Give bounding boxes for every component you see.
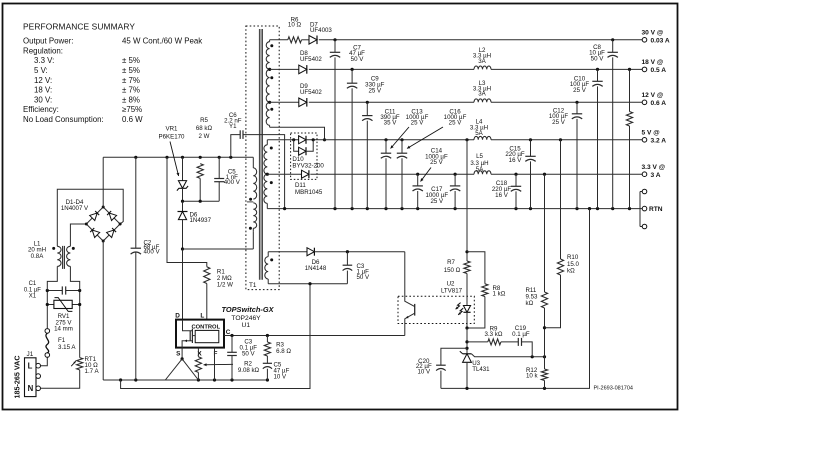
diode D11 MBR1045 [302, 170, 309, 178]
bridge rectifier D1-D4 [86, 207, 120, 241]
varistor RV1 [47, 304, 54, 306]
wire L1 right winding to bridge AC1 [70, 224, 86, 246]
inductor L5 [474, 171, 491, 174]
wire RTN rail [267, 208, 642, 210]
svg-text:5A: 5A [476, 166, 484, 173]
svg-text:10 Ω: 10 Ω [288, 22, 302, 29]
svg-text:U1: U1 [242, 322, 251, 329]
svg-text:45 W Cont./60 W Peak: 45 W Cont./60 W Peak [122, 37, 202, 46]
arrow C16 pointer [407, 127, 443, 149]
svg-text:T1: T1 [249, 282, 257, 289]
wire opto cathode to TL431 [466, 328, 468, 354]
capacitor C2 [135, 157, 137, 248]
svg-text:0.5 A: 0.5 A [651, 67, 667, 74]
svg-text:RTN: RTN [649, 206, 663, 213]
wire lower ground bus to bias return [121, 284, 310, 389]
output terminal 12 V [642, 100, 647, 105]
svg-text:N: N [28, 384, 34, 393]
capacitor C5 1nF [218, 157, 220, 178]
U2 light arrows [456, 303, 461, 310]
U2 phototransistor [414, 304, 416, 316]
wire bridge+ to B+ rail [102, 157, 104, 207]
capacitor C14 [417, 174, 419, 186]
secondary winding lower (5/3.3V) [266, 140, 268, 145]
wire TL431 ref line [471, 354, 544, 357]
capacitor C10 [597, 69, 599, 81]
svg-text:L5: L5 [476, 153, 483, 160]
svg-text:0.1 µF: 0.1 µF [24, 287, 41, 293]
TVS VR1 P6KE170 [182, 157, 184, 180]
resistor R6 [288, 37, 302, 43]
svg-text:1.7 A: 1.7 A [85, 368, 100, 375]
U2 LED [466, 296, 468, 305]
svg-text:± 5%: ± 5% [122, 66, 140, 75]
arrow C13 pointer [391, 127, 410, 149]
inductor L2 [474, 66, 491, 69]
wire fuse to C1 node [46, 291, 48, 329]
arrow R2 pointer [204, 363, 234, 366]
svg-text:68 kΩ: 68 kΩ [196, 125, 213, 132]
svg-text:Efficiency:: Efficiency: [23, 105, 59, 114]
diode D8 UF5402 [299, 65, 307, 74]
svg-text:UF5402: UF5402 [300, 56, 322, 63]
svg-text:50 V: 50 V [242, 351, 256, 358]
svg-text:16 V: 16 V [509, 157, 523, 164]
svg-text:25 V: 25 V [411, 120, 425, 127]
resistor R3 [266, 336, 268, 343]
capacitor C12 [576, 102, 578, 114]
wire 5V sense [560, 140, 562, 259]
capacitor C1 [47, 290, 62, 292]
resistor R7 [464, 261, 470, 274]
bias winding [267, 252, 269, 257]
capacitor C20 [441, 348, 467, 365]
svg-text:MBR1045: MBR1045 [295, 189, 323, 196]
output terminal RTN [639, 192, 641, 227]
svg-text:6.8 Ω: 6.8 Ω [276, 348, 291, 355]
capacitor C3 0.1uF [231, 336, 233, 353]
resistor 18V preload [629, 69, 631, 111]
svg-text:18 V:: 18 V: [34, 86, 52, 95]
resistor R1 line sense [167, 157, 207, 266]
svg-text:D: D [175, 313, 180, 320]
svg-text:3.3 V @: 3.3 V @ [642, 164, 666, 171]
svg-text:C1: C1 [29, 281, 37, 287]
svg-text:12 V:: 12 V: [34, 76, 52, 85]
wire L1 left winding to bridge AC2 [57, 189, 123, 246]
svg-text:400 V: 400 V [144, 249, 161, 256]
svg-text:14 mm: 14 mm [54, 326, 73, 333]
svg-text:50 V: 50 V [591, 55, 605, 62]
capacitor C19 [501, 341, 518, 343]
wire 5V rail [267, 139, 298, 141]
svg-text:50 V: 50 V [351, 56, 365, 63]
svg-text:12 V @: 12 V @ [642, 92, 664, 99]
svg-text:10 V: 10 V [417, 369, 431, 376]
output terminal 5 V [642, 138, 647, 143]
diode D9 UF5402 [299, 98, 307, 107]
svg-text:400 V: 400 V [224, 179, 241, 186]
svg-text:BYV32-200: BYV32-200 [292, 163, 324, 170]
wire 5V feed to opto [466, 140, 468, 261]
svg-text:L: L [200, 313, 204, 320]
wire J1.N to RT1 [41, 370, 80, 388]
capacitor C6 Y-cap [231, 135, 240, 158]
svg-text:TL431: TL431 [472, 366, 490, 373]
svg-text:3.3 V:: 3.3 V: [34, 56, 54, 65]
diode D7 UF4003 [309, 36, 317, 45]
svg-text:10 k: 10 k [526, 373, 539, 380]
wire secondary stack to 5V rail [270, 127, 325, 140]
wire bias return [268, 283, 347, 285]
svg-text:PERFORMANCE SUMMARY: PERFORMANCE SUMMARY [23, 22, 135, 32]
capacitor C17 [454, 174, 456, 186]
wire bridge- to ground rail [102, 241, 104, 380]
inductor L4 [474, 136, 491, 139]
resistor R9 [467, 341, 488, 343]
resistor R5 [197, 164, 203, 179]
svg-text:± 5%: ± 5% [122, 56, 140, 65]
capacitor C15 [530, 140, 532, 157]
svg-text:1/2 W: 1/2 W [217, 281, 233, 288]
svg-text:25 V: 25 V [573, 87, 587, 94]
svg-text:50 V: 50 V [357, 274, 371, 281]
thermistor RT1 [77, 358, 83, 370]
svg-text:0.8A: 0.8A [31, 253, 45, 260]
svg-text:U2: U2 [447, 281, 455, 288]
svg-text:35 V: 35 V [384, 120, 398, 127]
svg-text:VR1: VR1 [166, 125, 179, 132]
output terminal 3.3 V [642, 172, 647, 177]
arrow VR1 pointer [170, 142, 179, 177]
transformer T1 dashed box [246, 26, 279, 290]
svg-text:PI-2693-081704: PI-2693-081704 [594, 386, 633, 392]
svg-text:3 A: 3 A [651, 172, 661, 179]
svg-text:S: S [176, 350, 181, 357]
svg-text:UF5402: UF5402 [300, 89, 322, 96]
svg-text:Y1: Y1 [229, 123, 237, 130]
svg-text:CONTROL: CONTROL [191, 324, 220, 330]
svg-text:LTV817: LTV817 [441, 288, 463, 295]
svg-text:± 8%: ± 8% [122, 95, 140, 104]
svg-text:UF4003: UF4003 [310, 27, 332, 34]
svg-text:L: L [28, 361, 33, 370]
svg-text:± 7%: ± 7% [122, 86, 140, 95]
capacitor C18 [515, 174, 517, 186]
svg-text:9.08 kΩ: 9.08 kΩ [238, 367, 260, 374]
wire primary ground rail [103, 379, 267, 381]
wire bias winding top to D6 [268, 251, 307, 253]
U1 internal MOSFET [183, 320, 193, 331]
svg-text:No Load Consumption:: No Load Consumption: [23, 115, 104, 124]
svg-text:30 V @: 30 V @ [642, 30, 664, 37]
capacitor C8 [612, 40, 614, 53]
svg-text:3A: 3A [478, 91, 486, 98]
dual diode D10 BYV32-200 [291, 133, 317, 179]
capacitor C11 [366, 102, 368, 115]
wire 30V rail [270, 39, 288, 41]
svg-text:1N4937: 1N4937 [190, 217, 212, 224]
svg-text:R7: R7 [447, 259, 455, 266]
svg-text:± 7%: ± 7% [122, 76, 140, 85]
svg-text:0.6 A: 0.6 A [651, 100, 667, 107]
svg-text:18 V @: 18 V @ [642, 59, 664, 66]
svg-text:3.3 kΩ: 3.3 kΩ [485, 331, 503, 338]
wire feedback ground [441, 209, 590, 389]
secondary winding upper (30/18/12V) [269, 40, 271, 42]
svg-text:0.03 A: 0.03 A [651, 37, 670, 44]
svg-text:kΩ: kΩ [567, 267, 575, 274]
svg-text:TOPSwitch-GX: TOPSwitch-GX [222, 305, 275, 314]
resistor R10 [557, 259, 563, 275]
svg-text:25 V: 25 V [430, 198, 444, 205]
svg-text:2 W: 2 W [199, 133, 210, 140]
svg-text:≥75%: ≥75% [122, 105, 142, 114]
diode D6 1N4148 [307, 248, 314, 256]
wire J1.L to fuse [41, 357, 48, 366]
wire RT1 to RV1 node [79, 291, 81, 358]
capacitor C9 [351, 69, 353, 83]
wire clamp node [183, 200, 220, 202]
svg-text:5A: 5A [475, 130, 483, 137]
svg-text:3.2 A: 3.2 A [651, 137, 667, 144]
resistor R2 on X pin [197, 348, 199, 357]
svg-text:185-265 VAC: 185-265 VAC [13, 355, 22, 398]
capacitor C13 [385, 140, 387, 153]
shunt regulator U3 TL431 [463, 353, 472, 355]
svg-text:1N4007 V: 1N4007 V [61, 205, 89, 212]
wire B+ rail [103, 156, 253, 158]
resistor R12 [541, 369, 547, 381]
svg-text:25 V: 25 V [552, 119, 566, 126]
TOPSwitch-GX U1 body [176, 320, 224, 348]
wire S pin to ground [181, 348, 183, 359]
wire 12V rail [270, 101, 299, 103]
svg-text:25 V: 25 V [430, 159, 444, 166]
wire C pin line [224, 335, 405, 337]
optocoupler U2 box [398, 296, 474, 323]
capacitor C3 1uF bias [346, 252, 348, 266]
svg-text:P6KE170: P6KE170 [159, 134, 186, 141]
svg-text:0.1 µF: 0.1 µF [512, 331, 530, 338]
svg-text:10 V: 10 V [274, 373, 288, 380]
svg-text:30 V:: 30 V: [34, 95, 52, 104]
resistor R11 [541, 292, 547, 308]
svg-text:C: C [226, 329, 231, 336]
common-mode choke L1 [47, 266, 57, 290]
inductor L3 [474, 99, 491, 102]
svg-text:Output Power:: Output Power: [23, 37, 73, 46]
svg-text:J1: J1 [27, 351, 34, 358]
svg-text:3A: 3A [478, 58, 486, 65]
svg-text:5 V @: 5 V @ [642, 130, 661, 137]
output terminal 18 V [642, 67, 647, 72]
fuse F1 [45, 329, 50, 334]
wire 18V rail [270, 68, 299, 70]
svg-text:1 kΩ: 1 kΩ [493, 291, 506, 298]
svg-text:X1: X1 [29, 294, 37, 300]
svg-text:5 V:: 5 V: [34, 66, 48, 75]
primary winding [252, 157, 254, 168]
svg-text:3.15 A: 3.15 A [58, 344, 76, 351]
wire 3.3V rail [267, 173, 301, 175]
resistor R8 [467, 252, 485, 284]
svg-text:kΩ: kΩ [526, 300, 534, 307]
svg-text:25 V: 25 V [368, 88, 382, 95]
transformer core [259, 29, 261, 280]
arrow C14 pointer [421, 168, 432, 182]
wire D6 to opto collector [314, 251, 404, 253]
diode D6 1N4937 [182, 201, 184, 211]
svg-text:16 V: 16 V [495, 192, 509, 199]
svg-text:R5: R5 [200, 117, 208, 124]
svg-text:25 V: 25 V [449, 120, 463, 127]
wire 3.3V sense [544, 174, 546, 292]
capacitor C16 [401, 140, 403, 153]
svg-text:1N4148: 1N4148 [305, 265, 327, 272]
wire F pin to ground [214, 348, 216, 380]
svg-text:Regulation:: Regulation: [23, 46, 63, 55]
wire drain node [181, 247, 184, 250]
capacitor C5 47uF [266, 356, 268, 363]
svg-text:0.6 W: 0.6 W [122, 115, 143, 124]
output terminal 30 V [642, 38, 647, 43]
connector J1 [25, 358, 37, 397]
capacitor C7 [334, 40, 336, 53]
svg-text:150 Ω: 150 Ω [444, 267, 461, 274]
